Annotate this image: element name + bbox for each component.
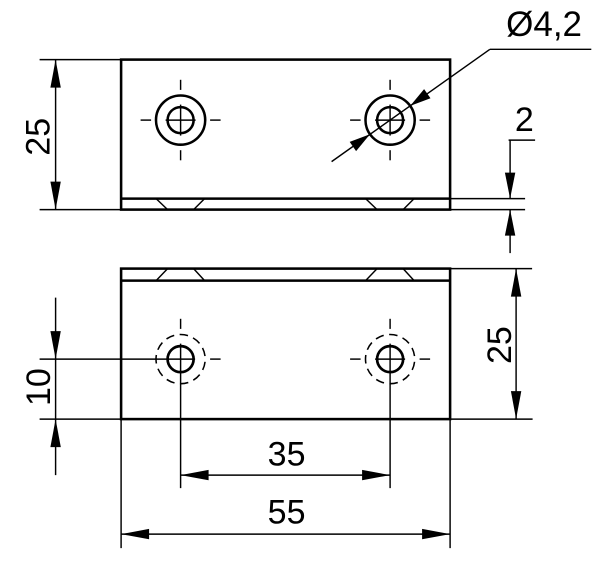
svg-text:55: 55 xyxy=(268,494,306,532)
hole H2 top view centerlines xyxy=(350,80,430,161)
svg-text:2: 2 xyxy=(515,101,534,139)
dimension 35 arrows xyxy=(181,470,209,480)
svg-text:35: 35 xyxy=(268,436,306,474)
dimension 2 upper leg and arrow xyxy=(509,140,511,199)
dimension 55 extension lines xyxy=(121,420,450,548)
dimension 2 lower leg and arrow xyxy=(509,210,511,254)
svg-text:10: 10 xyxy=(20,368,58,406)
bottom view countersink chevron hole 1 xyxy=(156,269,205,281)
dimension 25 right extension lines xyxy=(451,269,533,420)
dimension 55 arrows xyxy=(121,529,149,539)
bottom view outline xyxy=(121,269,450,420)
top view countersink chevron hole 1 xyxy=(156,199,205,210)
svg-text:25: 25 xyxy=(20,118,58,156)
hole H2 top view circles xyxy=(366,96,415,145)
dimension 2 extension lines xyxy=(451,199,525,210)
dimension 25 top left extension lines xyxy=(40,60,121,210)
dimension 55 dimension line xyxy=(121,533,450,535)
hole H1 top view circles xyxy=(156,96,205,145)
hole H2 bottom view bore circle xyxy=(377,346,403,372)
top view countersink chevron hole 2 xyxy=(366,199,415,210)
leader arrow lower left xyxy=(350,134,370,151)
svg-text:25: 25 xyxy=(481,326,519,364)
leader line for hole diameter xyxy=(332,49,592,161)
hole H1 bottom view bore circle xyxy=(168,346,194,372)
dimension 10 dimension line xyxy=(55,298,57,476)
svg-text:Ø4,2: Ø4,2 xyxy=(506,5,582,44)
dimension 2 shoulder line xyxy=(509,139,535,141)
top view outline xyxy=(121,60,450,210)
bottom view flange edge line xyxy=(121,279,450,282)
dimension 10 extension line bottom xyxy=(40,418,121,420)
dimension 35 dimension line xyxy=(181,474,391,476)
hole H1 bottom view centerlines xyxy=(40,319,221,488)
top view flange edge line xyxy=(121,197,450,200)
hole H1 top view centerlines xyxy=(141,80,221,161)
dimension 25 right arrows xyxy=(511,269,521,297)
hole H1 bottom view hidden countersink circle xyxy=(156,335,205,384)
hole H2 bottom view hidden countersink circle xyxy=(366,335,415,384)
leader arrow upper right xyxy=(410,89,430,106)
bottom view countersink chevron hole 2 xyxy=(366,269,415,281)
dimension 25 top left arrows xyxy=(50,60,60,88)
dimension 10 arrows xyxy=(50,331,60,359)
dimension 25 right dimension line xyxy=(515,269,517,420)
hole H2 bottom view centerlines xyxy=(350,319,430,488)
dimension 25 top left dimension line xyxy=(55,60,57,210)
